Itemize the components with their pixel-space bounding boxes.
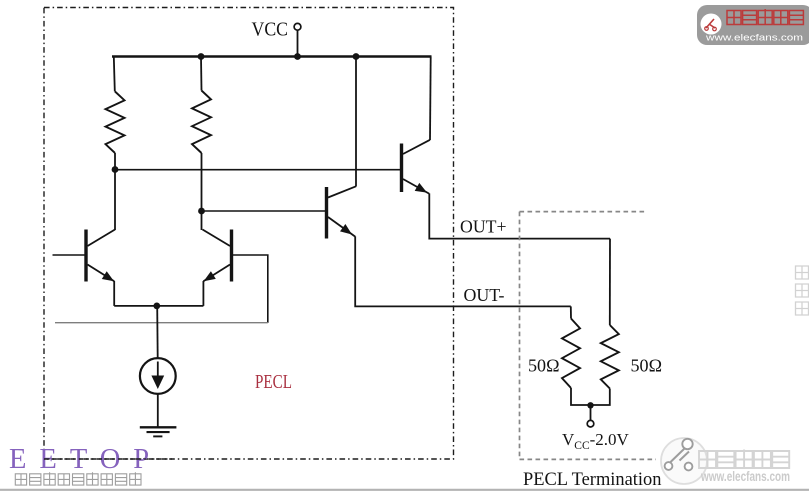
watermark: top-right elecfans badge [697, 5, 809, 45]
svg-text:PECL Termination: PECL Termination [523, 470, 662, 490]
wire: Q2 collector vertical [201, 211, 203, 230]
svg-text:PECL: PECL [255, 372, 292, 393]
resistor RT1 (50 ohm left) [562, 319, 580, 389]
wire: Q2 emitter down [202, 281, 204, 306]
svg-text:www.elecfans.com: www.elecfans.com [705, 33, 803, 44]
termination dashed box (open right) [520, 212, 657, 460]
wire: current source to ground [157, 394, 159, 427]
node D: termination center tap [587, 402, 593, 408]
wire: shared emitter horizontal [114, 305, 203, 307]
node A: R1 bottom / Q4 base tap [112, 166, 119, 173]
wire: Q3 emitter down to OUT- [355, 236, 571, 306]
resistor R1 [106, 92, 125, 154]
watermark: bottom-right elecfans title glyphs [699, 450, 789, 469]
wire: Q2 base lead to right [232, 255, 268, 323]
node: rail / R2 junction [198, 53, 205, 60]
wire: Q4 collector vertical to rail corner [429, 57, 432, 141]
wire: top VCC rail [112, 55, 432, 58]
wire: gray input return line [55, 322, 268, 324]
transistor Q1 (diff pair left, NPN) [86, 230, 115, 282]
wire: main box bottom dash overlay across EETOP [44, 458, 175, 460]
wire: R2 bottom lead to node B [201, 153, 203, 211]
main circuit dashed box [44, 8, 454, 460]
wire: Q1 base lead [53, 254, 87, 256]
svg-text:50Ω: 50Ω [631, 356, 663, 376]
svg-text:www.elecfans.com: www.elecfans.com [700, 469, 790, 484]
svg-text:OUT+: OUT+ [460, 217, 507, 237]
wire: R2 top lead [200, 57, 203, 91]
wire: R1 bottom lead [114, 153, 116, 170]
node: rail / Q3 collector junction [353, 53, 360, 60]
node: rail / VCC junction [294, 53, 301, 60]
watermark: right edge sliver glyphs [796, 266, 809, 315]
svg-text:VCC-2.0V: VCC-2.0V [562, 430, 630, 452]
transistor Q3 (emitter follower, mid) [327, 186, 357, 238]
node B: R2 / Q2 collector / Q3 base tap [198, 208, 205, 215]
wire: Q1 collector vertical [114, 170, 116, 231]
wire: R1 top lead [114, 57, 115, 92]
wire: node A to Q4 base [115, 169, 402, 171]
wire: node C to current source [156, 306, 159, 358]
wire: RT2 bottom lead [591, 389, 610, 406]
wire: OUT+ vertical into termination [609, 239, 611, 325]
wire: node B to Q3 base [202, 210, 327, 212]
svg-text:50Ω: 50Ω [528, 356, 560, 376]
ground [140, 427, 177, 436]
wire: stub to VCC-2.0V terminal [590, 405, 592, 420]
resistor RT2 (50 ohm right) [601, 325, 619, 389]
wire: OUT- vertical into termination [570, 306, 572, 318]
terminal: VCC-2.0V (open circle) [587, 420, 594, 427]
watermark: EETOP chinese subtitle [15, 472, 141, 485]
wire: Q4 emitter down to OUT+ [429, 193, 610, 238]
watermark: bottom gray rule [0, 489, 809, 491]
transistor Q2 (diff pair right, mirrored NPN) [203, 230, 232, 282]
node C: shared emitters [153, 303, 160, 310]
transistor Q4 (emitter follower, top) [402, 140, 431, 194]
VCC terminal (open circle) [294, 23, 301, 30]
wire: Q1 emitter down [113, 281, 115, 306]
svg-text:VCC: VCC [252, 19, 289, 41]
wire: VCC stub [297, 30, 299, 56]
resistor R2 [192, 91, 211, 154]
wire: Q3 collector vertical to rail [355, 57, 357, 187]
svg-text:OUT-: OUT- [464, 285, 505, 305]
watermark: bottom-right elecfans logo circle [661, 438, 707, 484]
wire: RT1 bottom lead [571, 388, 591, 405]
current source I1 [140, 358, 176, 394]
